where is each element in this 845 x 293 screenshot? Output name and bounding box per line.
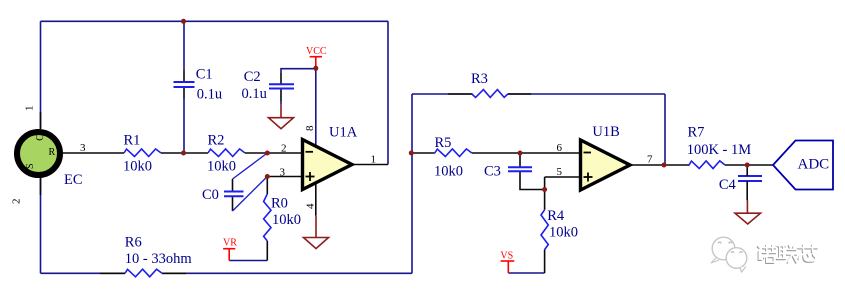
svg-text:R6: R6 <box>125 235 142 251</box>
svg-text:EC: EC <box>64 172 83 188</box>
svg-text:10k0: 10k0 <box>207 159 236 175</box>
svg-text:0.1u: 0.1u <box>197 87 222 103</box>
svg-text:4: 4 <box>305 203 317 209</box>
svg-text:R4: R4 <box>547 208 565 224</box>
svg-text:10k0: 10k0 <box>434 164 463 180</box>
svg-text:R0: R0 <box>271 196 288 212</box>
svg-text:2: 2 <box>11 199 23 205</box>
svg-text:C4: C4 <box>719 177 737 193</box>
svg-text:8: 8 <box>304 125 316 131</box>
svg-text:VCC: VCC <box>306 46 327 57</box>
svg-text:C0: C0 <box>202 187 219 203</box>
svg-text:R3: R3 <box>471 71 488 87</box>
svg-text:VR: VR <box>223 238 237 249</box>
svg-text:C3: C3 <box>484 163 501 179</box>
svg-text:10k0: 10k0 <box>549 225 578 241</box>
svg-text:2: 2 <box>281 143 287 155</box>
svg-text:10k0: 10k0 <box>123 159 152 175</box>
svg-text:7: 7 <box>647 154 653 166</box>
svg-text:U1A: U1A <box>329 125 358 141</box>
svg-text:C: C <box>35 134 46 141</box>
svg-text:VS: VS <box>500 251 513 262</box>
svg-text:R5: R5 <box>435 135 452 151</box>
svg-text:S: S <box>25 163 36 169</box>
svg-text:5: 5 <box>557 166 563 178</box>
svg-text:3: 3 <box>280 167 286 179</box>
svg-text:ADC: ADC <box>798 156 830 172</box>
svg-text:R2: R2 <box>208 132 225 148</box>
svg-text:10 - 33ohm: 10 - 33ohm <box>125 251 193 267</box>
svg-text:U1B: U1B <box>592 124 619 140</box>
svg-text:100K - 1M: 100K - 1M <box>687 142 752 158</box>
svg-text:C1: C1 <box>196 66 213 82</box>
svg-text:R: R <box>49 147 56 158</box>
svg-text:6: 6 <box>557 142 563 154</box>
svg-text:3: 3 <box>80 142 86 154</box>
svg-text:R1: R1 <box>124 132 141 148</box>
svg-text:10k0: 10k0 <box>272 212 301 228</box>
svg-text:1: 1 <box>24 106 36 112</box>
svg-text:C2: C2 <box>244 69 261 85</box>
svg-text:R7: R7 <box>688 125 705 141</box>
svg-text:0.1u: 0.1u <box>242 86 267 102</box>
svg-text:1: 1 <box>371 154 377 166</box>
